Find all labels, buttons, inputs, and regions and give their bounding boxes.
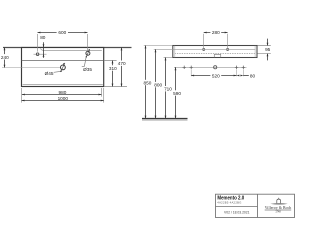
bolt cross 1 (183, 66, 186, 69)
dim 240 (0, 47, 9, 67)
svg-text:4A22B5 4A22BG: 4A22B5 4A22BG (217, 200, 241, 204)
dim 800 (153, 49, 163, 118)
svg-text:280: 280 (212, 30, 220, 35)
inner front line (23, 84, 103, 86)
title block divider vertical (257, 194, 259, 217)
svg-text:470: 470 (118, 61, 126, 66)
bolt cross 2 (190, 66, 193, 69)
svg-text:710: 710 (164, 87, 172, 92)
end cap lines (175, 46, 255, 57)
tap hole O35 (82, 49, 93, 72)
svg-text:980: 980 (58, 90, 66, 95)
basin outer rectangle (22, 48, 104, 87)
drain centerline (2, 67, 60, 69)
wall line (3, 47, 132, 49)
dim 470 (117, 48, 126, 87)
dim 850 (142, 46, 152, 119)
inner back rim line (41, 48, 102, 50)
svg-text:600: 600 (58, 30, 66, 35)
dim 80 right (237, 73, 256, 78)
dim 600 (38, 30, 88, 52)
bolt cross 3 (235, 66, 238, 69)
svg-text:850: 850 (143, 81, 151, 86)
deck front line (22, 60, 104, 62)
fixing hole right (227, 48, 229, 50)
dim 95 (258, 39, 271, 61)
dim 590 (172, 67, 182, 118)
svg-text:Ø35: Ø35 (83, 67, 92, 72)
hidden bottom line (dashed) (175, 53, 256, 55)
svg-text:590: 590 (173, 91, 181, 96)
svg-text:240: 240 (1, 55, 9, 60)
logo underline (265, 209, 292, 211)
basin front rectangle (173, 46, 257, 58)
bolt cross 4 (242, 66, 245, 69)
bottom extension lines (22, 88, 104, 103)
dim 520 (191, 69, 243, 78)
fixing hole (36, 53, 39, 56)
svg-text:Ø45: Ø45 (45, 71, 54, 76)
drain notch (214, 54, 220, 57)
dim 80 (40, 35, 46, 58)
dim 1000 (22, 96, 104, 102)
fixing hole centerline (34, 53, 47, 55)
right extension lines (104, 61, 127, 87)
svg-text:1000: 1000 (58, 96, 69, 101)
fixing hole left (203, 48, 205, 50)
floor line (142, 118, 188, 120)
title block divider horizontal (216, 206, 258, 208)
svg-text:800: 800 (154, 83, 162, 88)
drain O45 (45, 63, 66, 76)
svg-text:520: 520 (212, 73, 220, 78)
logo icon (270, 198, 288, 205)
svg-text:310: 310 (109, 66, 117, 71)
dim 280 (204, 29, 228, 48)
left extension lines (144, 45, 173, 47)
bolt row centerline (174, 66, 247, 68)
title block frame (216, 194, 295, 217)
svg-text:95: 95 (265, 47, 271, 52)
drain circle front (214, 66, 217, 69)
dim 710 (163, 58, 173, 119)
svg-text:1748: 1748 (275, 210, 281, 213)
dim 980 (22, 90, 102, 95)
dim 310 (108, 61, 117, 87)
svg-text:80: 80 (40, 35, 46, 40)
svg-text:80: 80 (250, 73, 256, 78)
svg-text:V02 / 18.03.2021: V02 / 18.03.2021 (224, 211, 250, 215)
